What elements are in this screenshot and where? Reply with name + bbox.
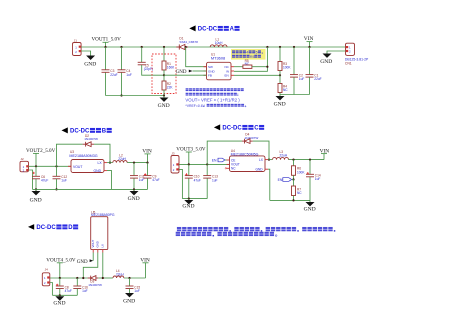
inductor L4 xyxy=(113,269,124,278)
svg-text:GND: GND xyxy=(77,260,88,265)
inductor L2 xyxy=(113,154,127,163)
svg-text:22uH: 22uH xyxy=(116,272,124,276)
resistor R5 xyxy=(234,59,267,69)
svg-text:C: C xyxy=(254,126,259,132)
connector J1 xyxy=(73,39,82,56)
svg-text:VOUT2_5.0V: VOUT2_5.0V xyxy=(26,148,56,154)
svg-text:47uF: 47uF xyxy=(65,289,72,293)
wire U5 VOUT pin to output row xyxy=(83,253,98,279)
svg-text:GND: GND xyxy=(84,61,96,67)
svg-text:B: B xyxy=(102,129,107,135)
resistor R3 xyxy=(278,46,291,75)
svg-text:GND: GND xyxy=(320,59,332,65)
svg-text:VOUT: VOUT xyxy=(91,239,95,247)
regulator U4 ME2188C50M5G xyxy=(225,149,268,172)
svg-text:GND: GND xyxy=(94,169,102,173)
ground at block C right xyxy=(304,200,316,212)
svg-text:47uF: 47uF xyxy=(194,178,201,182)
node R2 bottom junction xyxy=(163,94,165,96)
resistor R2 xyxy=(162,75,173,95)
svg-text:GND: GND xyxy=(53,301,65,307)
svg-text:1uF: 1uF xyxy=(134,289,140,293)
svg-text:D: D xyxy=(68,225,73,231)
node VOUT1 junction xyxy=(104,46,106,48)
net flag GND at U1 GND pin xyxy=(176,70,207,76)
capacitor C12 xyxy=(53,166,68,190)
svg-text:NC: NC xyxy=(297,191,302,195)
wire J3 pin2 down xyxy=(179,169,182,198)
wire VOUT3 row xyxy=(179,163,230,165)
capacitor C6 xyxy=(32,166,48,190)
svg-text:J2: J2 xyxy=(21,157,25,161)
ground at block B right xyxy=(128,189,140,202)
inductor L3 xyxy=(273,150,289,160)
svg-text:NC: NC xyxy=(283,88,288,92)
node EN junction C xyxy=(292,178,294,180)
wire LX to L3 xyxy=(268,159,272,161)
title board A xyxy=(189,25,239,32)
capacitor C1 xyxy=(306,47,322,95)
wire U3 GND pin down xyxy=(107,171,112,190)
net flag EN at divider xyxy=(278,178,294,182)
svg-text:J3: J3 xyxy=(171,152,175,156)
connector J2 xyxy=(20,157,29,173)
svg-text:NC: NC xyxy=(231,167,236,171)
ground at R4 xyxy=(274,95,286,108)
svg-text:J1: J1 xyxy=(74,39,78,43)
svg-text:GND: GND xyxy=(256,168,264,172)
wire L3 to VIN xyxy=(289,159,325,161)
capacitor C10 xyxy=(185,164,201,198)
wire FB row to U1 xyxy=(164,74,207,76)
svg-text:1uF: 1uF xyxy=(139,178,145,182)
ground at block D left xyxy=(53,295,65,306)
dashed red box around feedback divider xyxy=(152,54,176,94)
node U5 LX junction xyxy=(102,277,104,279)
svg-text:5: 5 xyxy=(256,50,258,54)
diode D1 SS34 xyxy=(176,37,198,50)
node C8 bottom junction xyxy=(59,294,61,296)
capacitor C14 xyxy=(306,159,321,201)
net label VOUT1_5.0V xyxy=(92,37,122,47)
capacitor C4 xyxy=(118,46,132,97)
svg-text:R5: R5 xyxy=(250,55,255,59)
svg-text:10uH: 10uH xyxy=(215,41,223,45)
svg-text:EN: EN xyxy=(212,158,217,162)
capacitor C15 xyxy=(126,277,141,293)
ground at J1 xyxy=(84,56,96,68)
yellow note block A xyxy=(231,49,266,60)
svg-text:GND: GND xyxy=(123,299,135,305)
ground at divider xyxy=(158,96,170,110)
net label VOUT4_5.0V xyxy=(46,258,76,280)
regulator U3 ME2188A50M3G xyxy=(68,150,107,173)
svg-text:1uF: 1uF xyxy=(61,179,67,183)
node R7 bottom junction xyxy=(292,199,294,201)
title board C xyxy=(214,124,264,131)
op chip U1 MT3608 xyxy=(204,53,235,80)
svg-text:VOUT: VOUT xyxy=(73,165,82,169)
wire bottom rail D xyxy=(52,294,77,296)
connector CN1 xyxy=(345,43,369,65)
node C10 bottom junction xyxy=(188,198,190,200)
svg-text:4: 4 xyxy=(246,50,248,54)
svg-text:160K: 160K xyxy=(167,66,175,70)
node SW junction xyxy=(185,46,187,48)
wire bottom rail A right xyxy=(280,94,310,96)
svg-text:1uF: 1uF xyxy=(299,77,305,81)
node U5 VOUT junction xyxy=(82,277,84,279)
diode D4 loop xyxy=(207,133,269,165)
svg-text:47uF: 47uF xyxy=(152,178,159,182)
node EN divider junction xyxy=(279,74,281,76)
svg-text:100K: 100K xyxy=(297,170,305,174)
svg-text:DC-DC: DC-DC xyxy=(198,27,218,33)
node LX junction C xyxy=(268,159,270,161)
ground at C15 xyxy=(123,293,135,305)
wire bottom rail A left xyxy=(106,95,165,97)
capacitor C9 xyxy=(144,163,160,190)
wire VOUT2 row xyxy=(29,165,72,167)
net flag VIN block D xyxy=(140,258,150,279)
svg-text:GND: GND xyxy=(30,198,42,204)
net flag VIN block A xyxy=(304,36,314,48)
wire SW to U1 xyxy=(186,47,207,67)
net flag GND at U5 pin 1 xyxy=(77,253,93,265)
wire LX to L2 xyxy=(107,162,113,164)
node FB junction xyxy=(163,74,165,76)
ground at CN1 xyxy=(320,54,332,65)
regulator U5 ME2188A50PG xyxy=(91,210,115,252)
svg-text:GND: GND xyxy=(274,102,286,108)
net label VOUT3_5.0V xyxy=(176,147,206,166)
capacitor C8 xyxy=(56,278,72,295)
svg-text:CE: CE xyxy=(231,158,235,162)
svg-text:22uF: 22uF xyxy=(314,77,321,81)
net flag VIN block C xyxy=(320,148,330,159)
wire J4 pin2 down xyxy=(50,283,53,296)
svg-text:1N4007W: 1N4007W xyxy=(245,136,259,140)
svg-text:CN1: CN1 xyxy=(345,61,352,65)
capacitor C2 xyxy=(290,46,304,95)
connector J4 xyxy=(42,267,50,285)
inductor L1 xyxy=(210,38,227,47)
svg-text:ME2188A50M3G: ME2188A50M3G xyxy=(69,154,97,158)
svg-text:100K: 100K xyxy=(283,66,291,70)
svg-text:SS34_C8678: SS34_C8678 xyxy=(179,40,198,44)
node LX loop junction xyxy=(109,162,111,164)
diode D2 loop xyxy=(55,134,110,168)
resistor R7 xyxy=(292,180,303,201)
svg-text:EN: EN xyxy=(278,178,283,182)
wire J2 pin2 down xyxy=(29,170,33,189)
wire bottom rail B xyxy=(33,188,148,190)
svg-text:47uF: 47uF xyxy=(41,179,48,183)
connector J3 xyxy=(171,152,179,173)
svg-text:1N4007W: 1N4007W xyxy=(84,137,98,141)
net flag EN at CE pin xyxy=(212,158,227,162)
net label VOUT2_5.0V xyxy=(26,148,56,168)
svg-text:J4: J4 xyxy=(45,267,49,271)
svg-text:GND: GND xyxy=(182,203,194,209)
capacitor C5 22pF feed-forward xyxy=(138,46,164,75)
annotation text block A xyxy=(185,88,246,108)
capacitor C3 xyxy=(102,47,118,96)
wire CN1 pin2 to GND xyxy=(327,51,346,54)
title board D xyxy=(28,224,78,231)
capacitor C11 xyxy=(130,162,145,190)
svg-text:LX: LX xyxy=(98,161,103,165)
title board B xyxy=(62,127,112,134)
wire EN row to divider xyxy=(234,74,280,76)
svg-text:GND: GND xyxy=(158,103,170,109)
wire VIN drop to IN/EN xyxy=(234,46,269,71)
capacitor C13 xyxy=(203,163,218,198)
svg-text:VOUT1_5.0V: VOUT1_5.0V xyxy=(92,37,122,43)
svg-text:A: A xyxy=(230,27,235,33)
wire main row D xyxy=(50,277,88,279)
ground at block B left xyxy=(30,189,42,203)
node C11 bottom junction xyxy=(133,188,135,190)
svg-text:*VREF=0.6V: *VREF=0.6V xyxy=(185,104,205,108)
resistor R6 xyxy=(292,159,306,180)
capacitor C16 xyxy=(73,277,88,295)
svg-text:LX: LX xyxy=(101,244,105,248)
wire bottom rail C left xyxy=(182,198,207,200)
wire U4 GND pin down xyxy=(268,169,270,200)
svg-text:1uF: 1uF xyxy=(212,178,218,182)
wire L2 to VIN corner xyxy=(127,162,147,164)
svg-text:22uH: 22uH xyxy=(280,153,288,157)
svg-text:1uF: 1uF xyxy=(315,177,321,181)
svg-text:GND: GND xyxy=(128,196,140,202)
svg-text:1N4007W: 1N4007W xyxy=(88,283,102,287)
wire VOUT1 bus xyxy=(81,46,346,48)
svg-text:1uF: 1uF xyxy=(126,73,132,77)
net flag VIN block B xyxy=(142,149,152,164)
resistor R4 xyxy=(278,75,288,94)
diode D3 xyxy=(88,276,102,287)
wire U5 LX pin down xyxy=(102,253,104,279)
svg-text:DC-DC: DC-DC xyxy=(36,225,56,231)
svg-text:GND: GND xyxy=(176,70,187,75)
svg-text:1uF: 1uF xyxy=(82,289,88,293)
svg-text:GND: GND xyxy=(304,206,316,212)
svg-text:22uF: 22uF xyxy=(110,73,117,77)
svg-text:FB: FB xyxy=(208,74,212,78)
svg-text:VOUT= VREF × ( 1+R1/R2 ): VOUT= VREF × ( 1+R1/R2 ) xyxy=(185,97,240,102)
annotation text block D xyxy=(176,227,336,236)
wire J1 pin2 to GND xyxy=(81,51,91,56)
ground at block C left xyxy=(182,199,194,210)
svg-text:22K: 22K xyxy=(167,86,174,90)
wire bottom rail C right xyxy=(270,199,310,201)
svg-text:GND: GND xyxy=(96,241,100,247)
resistor R1 xyxy=(162,46,175,75)
svg-text:EN: EN xyxy=(225,74,229,78)
svg-text:MT3608: MT3608 xyxy=(211,56,225,61)
svg-text:DC-DC: DC-DC xyxy=(222,126,242,132)
